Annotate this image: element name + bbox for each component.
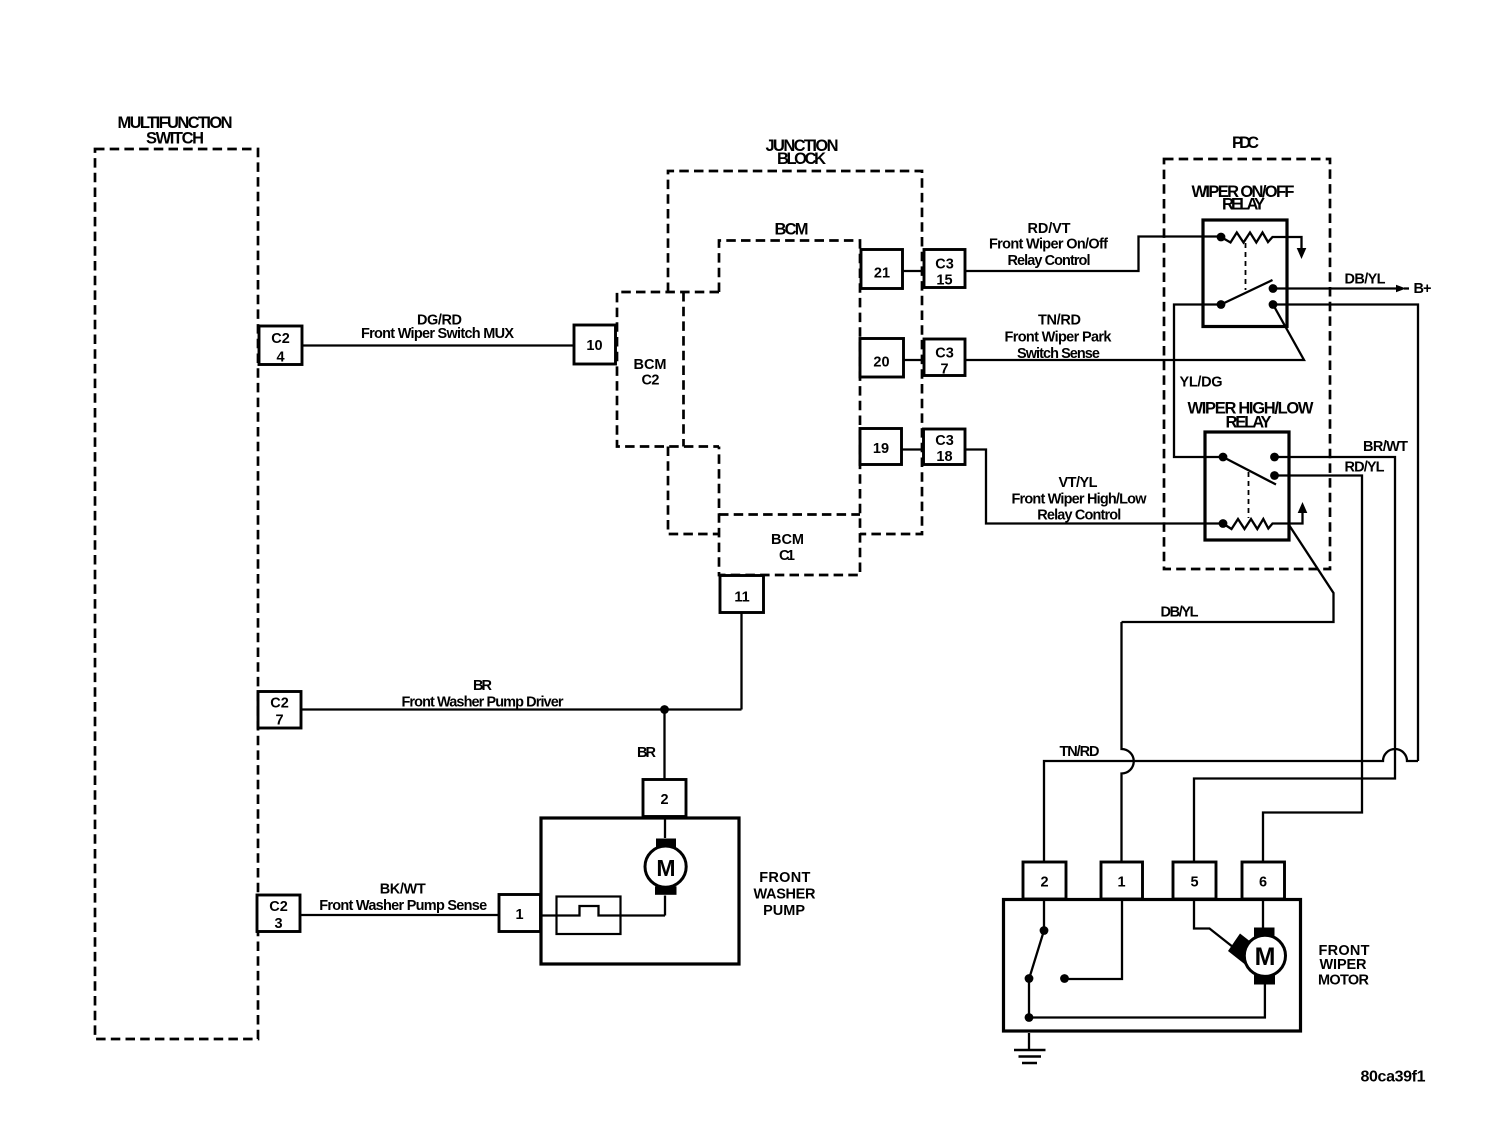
wire RD/VT relay control [965, 237, 1217, 272]
wire pin 19 to C3/18 [901, 448, 924, 450]
BCM C2 outline [617, 292, 719, 447]
svg-text:BK/WT: BK/WT [380, 882, 426, 898]
junction block outline [668, 171, 922, 534]
svg-text:RELAY: RELAY [1226, 414, 1272, 432]
svg-text:Switch Sense: Switch Sense [1017, 346, 1100, 362]
BCM pin 19 [860, 429, 902, 465]
svg-text:BLOCK: BLOCK [777, 150, 826, 168]
PDC box [1164, 159, 1330, 569]
svg-text:21: 21 [874, 266, 890, 282]
washer pump fluid level switch [557, 897, 621, 935]
svg-text:15: 15 [936, 273, 952, 289]
svg-text:Front Washer Pump Sense: Front Washer Pump Sense [319, 898, 487, 914]
wire TN/RD from relay K1 to wiper motor pin 2 [1044, 305, 1418, 863]
svg-text:Front Wiper High/Low: Front Wiper High/Low [1012, 492, 1148, 508]
svg-text:B+: B+ [1414, 281, 1432, 297]
relay K1 coil arrow [1297, 248, 1307, 259]
svg-text:DB/YL: DB/YL [1345, 272, 1386, 288]
front washer pump label [754, 870, 817, 919]
svg-text:BR: BR [473, 678, 493, 694]
wire BK/WT [300, 914, 500, 916]
label RD/VT Front Wiper On/Off Relay Control [989, 221, 1108, 269]
svg-text:10: 10 [586, 338, 602, 354]
svg-text:BR/WT: BR/WT [1363, 439, 1408, 455]
svg-text:7: 7 [275, 713, 283, 729]
label BR Front Washer Pump Driver [402, 678, 564, 711]
svg-text:RD/VT: RD/VT [1028, 221, 1071, 237]
svg-text:4: 4 [276, 350, 284, 366]
svg-text:Relay Control: Relay Control [1037, 508, 1121, 524]
wiper motor M2 [1228, 928, 1286, 985]
svg-text:RELAY: RELAY [1222, 196, 1265, 214]
label TN/RD Front Wiper Park Switch Sense [1005, 313, 1113, 363]
connector C2 pin 3 [257, 895, 300, 932]
wire YL/DG [1174, 305, 1221, 458]
washer pump pin 1 [499, 895, 541, 932]
junction node on BR wire [660, 705, 669, 714]
connector C3 pin 18 [924, 429, 966, 465]
multifunction switch box [95, 149, 258, 1039]
label BK/WT Front Washer Pump Sense [319, 882, 487, 915]
svg-text:WASHER: WASHER [754, 887, 817, 903]
svg-text:C1: C1 [779, 548, 795, 564]
svg-text:PUMP: PUMP [763, 903, 805, 919]
wiper motor pin 1 [1101, 862, 1143, 899]
connector C3 pin 15 [924, 250, 965, 289]
svg-text:C2: C2 [269, 899, 288, 915]
wire DG/RD [302, 344, 574, 346]
front washer pump box [541, 818, 739, 964]
washer pump internal wires [541, 817, 666, 916]
wire RD/YL to wiper motor pin 6 [1263, 476, 1362, 863]
wire BR/WT to wiper motor pin 5 [1194, 457, 1395, 862]
wiper motor pin 5 [1173, 862, 1216, 899]
junction block label [766, 137, 839, 168]
label DG/RD Front Wiper Switch MUX [361, 313, 514, 343]
wire VT/YL relay control [965, 450, 1219, 524]
svg-text:Front Washer Pump Driver: Front Washer Pump Driver [402, 695, 564, 711]
wiper on/off relay label [1192, 183, 1295, 214]
relay K2 coil arrow [1298, 502, 1308, 513]
BCM outline [719, 241, 860, 576]
wiper motor park switch [1025, 899, 1122, 1022]
svg-text:BCM: BCM [775, 221, 809, 239]
BCM C1 label [771, 532, 804, 564]
svg-text:2: 2 [660, 792, 668, 808]
relay K1 coil [1217, 233, 1302, 251]
BCM C1 divider [719, 513, 860, 516]
svg-text:2: 2 [1040, 875, 1048, 891]
svg-text:BCM: BCM [771, 532, 804, 548]
svg-text:3: 3 [274, 916, 282, 932]
svg-text:1: 1 [515, 907, 523, 923]
svg-text:M: M [656, 855, 675, 881]
washer pump motor M1 [645, 839, 686, 895]
svg-text:Relay Control: Relay Control [1008, 253, 1091, 269]
relay K2 coil [1219, 511, 1303, 529]
svg-text:TN/RD: TN/RD [1038, 313, 1081, 329]
wire DB/YL to B+ [1273, 287, 1397, 289]
wiper motor pin 2 [1023, 862, 1066, 899]
label VT/YL Front Wiper High/Low Relay Control [1012, 475, 1148, 524]
multifunction switch label [118, 114, 233, 148]
wire TN/RD park switch sense [965, 305, 1304, 361]
svg-text:C2: C2 [271, 331, 290, 347]
relay K1 switch [1217, 280, 1278, 309]
wire pin 21 to C3/15 [903, 270, 924, 272]
svg-text:MOTOR: MOTOR [1318, 973, 1370, 989]
svg-text:1: 1 [1117, 875, 1125, 891]
relay K2 wiper high/low box [1205, 432, 1289, 540]
washer pump pin 2 [643, 780, 686, 817]
connector C2 pin 4 [259, 326, 302, 366]
connector C2 pin 7 [258, 692, 301, 729]
svg-text:19: 19 [873, 441, 889, 457]
svg-text:Front Wiper Park: Front Wiper Park [1005, 330, 1113, 346]
relay K1 wiper on/off box [1203, 220, 1287, 327]
relay K1 dashed actuator link [1245, 243, 1247, 290]
svg-text:6: 6 [1259, 875, 1267, 891]
BCM C2 label [634, 357, 667, 389]
relay K2 switch [1219, 453, 1279, 485]
svg-text:TN/RD: TN/RD [1060, 744, 1100, 760]
svg-text:SWITCH: SWITCH [146, 130, 204, 148]
svg-text:5: 5 [1190, 875, 1198, 891]
svg-text:C3: C3 [935, 433, 954, 449]
svg-text:C3: C3 [935, 346, 954, 362]
svg-text:DB/YL: DB/YL [1161, 605, 1199, 621]
svg-text:Front Wiper Switch MUX: Front Wiper Switch MUX [361, 326, 514, 342]
wire DB/YL to wiper motor pin 1 [1122, 525, 1334, 862]
arrow to B+ [1396, 285, 1406, 292]
connector C3 pin 7 [924, 339, 965, 378]
svg-text:7: 7 [940, 362, 948, 378]
svg-text:YL/DG: YL/DG [1180, 375, 1223, 391]
wire BR front washer pump driver [301, 613, 742, 780]
svg-text:BCM: BCM [634, 357, 667, 373]
BCM pin 21 [861, 250, 903, 289]
svg-text:20: 20 [873, 355, 889, 371]
wiper motor pin 6 [1242, 862, 1285, 899]
relay K2 dashed actuator link [1248, 472, 1250, 518]
svg-text:VT/YL: VT/YL [1059, 475, 1098, 491]
svg-text:C2: C2 [270, 696, 289, 712]
wiper motor internal wires [1029, 899, 1265, 1018]
svg-text:PDC: PDC [1232, 134, 1259, 152]
ground [1014, 1033, 1046, 1063]
svg-text:WIPER: WIPER [1320, 957, 1368, 973]
svg-text:RD/YL: RD/YL [1345, 460, 1385, 476]
svg-text:C3: C3 [935, 257, 954, 273]
svg-text:FRONT: FRONT [759, 870, 810, 886]
BCM pin 11 [720, 576, 764, 613]
svg-text:18: 18 [936, 449, 952, 465]
svg-text:C2: C2 [642, 373, 660, 389]
svg-text:Front Wiper On/Off: Front Wiper On/Off [989, 237, 1108, 253]
svg-text:80ca39f1: 80ca39f1 [1361, 1069, 1426, 1086]
BCM pin 20 [860, 339, 904, 378]
svg-text:11: 11 [734, 590, 749, 606]
wiper high/low relay label [1188, 400, 1314, 432]
svg-text:M: M [1255, 943, 1276, 971]
front wiper motor box [1004, 900, 1301, 1032]
svg-text:BR: BR [637, 745, 657, 761]
front wiper motor label [1318, 943, 1370, 989]
wire pin 20 to C3/7 [903, 359, 924, 361]
junction block pin 10 [574, 325, 616, 364]
